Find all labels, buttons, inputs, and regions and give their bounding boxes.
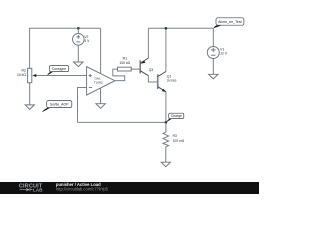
label V1 value bbox=[220, 48, 228, 56]
transistor Q1 2N3055 bbox=[158, 72, 166, 92]
footer bar bbox=[0, 182, 259, 194]
ground below op-amp bbox=[96, 104, 105, 109]
ground below R2 bbox=[25, 105, 34, 110]
wire Q3 collector stub bbox=[147, 28, 149, 58]
resistor R1 100k bbox=[118, 67, 141, 71]
svg-text:12 V: 12 V bbox=[220, 52, 228, 56]
svg-text:10 kΩ: 10 kΩ bbox=[17, 73, 26, 77]
svg-text:Q3: Q3 bbox=[149, 68, 154, 72]
svg-text:Charge: Charge bbox=[171, 114, 182, 118]
svg-text:LAB: LAB bbox=[33, 187, 43, 192]
wire op-amp + input from R2 wiper bbox=[36, 75, 87, 77]
wire R2 top to left rail bbox=[30, 28, 101, 68]
label OA1 TL082 bbox=[94, 77, 103, 85]
wire op-amp - input feedback bbox=[78, 88, 87, 123]
ground below R3 bbox=[161, 162, 170, 167]
wire op-amp output jog to R1 bbox=[113, 69, 125, 81]
svg-text:100 kΩ: 100 kΩ bbox=[119, 61, 130, 65]
potentiometer R2 bbox=[28, 68, 32, 105]
ground below V1 bbox=[209, 74, 218, 79]
transistor Q3 bbox=[140, 58, 148, 76]
svg-text:Alime_en_Test: Alime_en_Test bbox=[218, 20, 242, 24]
label R1 value bbox=[119, 56, 130, 65]
svg-text:Consigne: Consigne bbox=[52, 67, 66, 71]
Q3 PNP emitter arrow bbox=[141, 61, 146, 64]
flag Consigne bbox=[47, 66, 69, 76]
node junction Q1 collector on rail bbox=[165, 27, 168, 30]
wire Q1 emitter down to sense node bbox=[165, 92, 167, 123]
resistor R3 100m zigzag bbox=[163, 122, 169, 162]
ground below V2 bbox=[74, 62, 84, 67]
svg-text:Sortie_AOP: Sortie_AOP bbox=[50, 103, 69, 107]
svg-text:100 mΩ: 100 mΩ bbox=[173, 139, 185, 143]
label V2 value bbox=[84, 35, 90, 43]
svg-text:http://circuitlab.com/c77kYp5: http://circuitlab.com/c77kYp5 bbox=[56, 187, 109, 192]
wire Q3 emitter to Q1 base bbox=[148, 76, 157, 82]
svg-text:R1: R1 bbox=[123, 56, 127, 60]
wire top-right rail bbox=[148, 27, 213, 29]
voltage source V2 4V bbox=[73, 28, 85, 62]
Q1 NPN emitter arrow bbox=[162, 89, 166, 92]
node junction sense node bbox=[165, 121, 168, 124]
svg-text:4 V: 4 V bbox=[84, 39, 90, 43]
R2 wiper arrow bbox=[32, 74, 36, 77]
voltage source V1 12V bbox=[207, 47, 219, 75]
label Q1 2N3055 bbox=[167, 75, 177, 83]
node junction V2 tap on rail bbox=[77, 27, 80, 30]
wire bottom feedback to sense node bbox=[78, 121, 166, 123]
flag Alime_en_Test bbox=[213, 18, 244, 29]
svg-text:Q1: Q1 bbox=[167, 75, 172, 79]
svg-text:R3: R3 bbox=[173, 134, 177, 138]
wire V1 top lead bbox=[212, 28, 214, 46]
wire rail into op-amp V+ pin bbox=[100, 28, 102, 73]
flag Sortie_AOP bbox=[42, 101, 72, 113]
op-amp OA1 TL082 bbox=[87, 67, 115, 104]
wire Q1 collector stub bbox=[165, 28, 167, 71]
label R3 value bbox=[173, 134, 185, 143]
footer logo CIRCUITLAB bbox=[19, 184, 43, 193]
flag Charge bbox=[166, 113, 184, 122]
svg-text:TL082: TL082 bbox=[94, 81, 103, 85]
svg-text:2N3055: 2N3055 bbox=[167, 79, 177, 83]
label R2 value bbox=[17, 69, 26, 77]
